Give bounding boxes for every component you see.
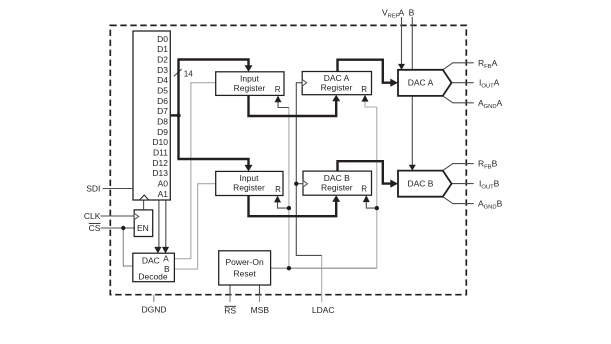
svg-text:D5: D5 [157, 86, 168, 96]
svg-text:SDI: SDI [86, 183, 100, 193]
svg-text:CLK: CLK [84, 211, 101, 221]
svg-text:EN: EN [137, 223, 149, 233]
svg-text:Decode: Decode [138, 272, 168, 282]
svg-text:Register: Register [234, 83, 266, 93]
svg-text:D10: D10 [152, 137, 168, 147]
svg-text:B: B [409, 8, 415, 18]
svg-text:D13: D13 [152, 168, 168, 178]
svg-text:A: A [163, 254, 169, 264]
svg-text:DAC: DAC [142, 255, 160, 265]
svg-text:CS: CS [89, 223, 101, 233]
svg-text:MSB: MSB [251, 305, 270, 315]
svg-text:R: R [275, 85, 281, 94]
svg-text:LDAC: LDAC [312, 305, 335, 315]
svg-text:Reset: Reset [233, 269, 256, 279]
svg-text:D0: D0 [157, 34, 168, 44]
svg-text:A1: A1 [158, 189, 169, 199]
svg-text:DAC A: DAC A [324, 73, 350, 83]
svg-text:D4: D4 [157, 75, 168, 85]
svg-text:Register: Register [233, 183, 265, 193]
svg-text:D6: D6 [157, 96, 168, 106]
svg-text:DAC A: DAC A [408, 78, 434, 88]
svg-text:RS: RS [224, 306, 236, 316]
svg-text:R: R [361, 185, 367, 194]
svg-text:D2: D2 [157, 55, 168, 65]
svg-text:A: A [398, 8, 404, 18]
svg-text:R: R [361, 85, 367, 94]
svg-text:Input: Input [240, 173, 260, 183]
svg-text:Register: Register [321, 83, 353, 93]
svg-text:DAC B: DAC B [408, 179, 434, 189]
svg-text:D7: D7 [157, 106, 168, 116]
svg-text:Register: Register [321, 182, 353, 192]
svg-text:D8: D8 [157, 117, 168, 127]
svg-text:DAC B: DAC B [324, 173, 350, 183]
svg-text:DGND: DGND [141, 304, 166, 314]
svg-text:D1: D1 [157, 44, 168, 54]
svg-text:Input: Input [240, 73, 260, 83]
svg-text:14: 14 [184, 70, 194, 79]
svg-text:Power-On: Power-On [225, 257, 264, 267]
svg-text:D11: D11 [153, 148, 168, 158]
svg-text:D9: D9 [157, 127, 168, 137]
svg-text:R: R [275, 185, 281, 194]
svg-text:D3: D3 [157, 65, 168, 75]
svg-text:D12: D12 [152, 158, 168, 168]
svg-text:A0: A0 [158, 178, 169, 188]
